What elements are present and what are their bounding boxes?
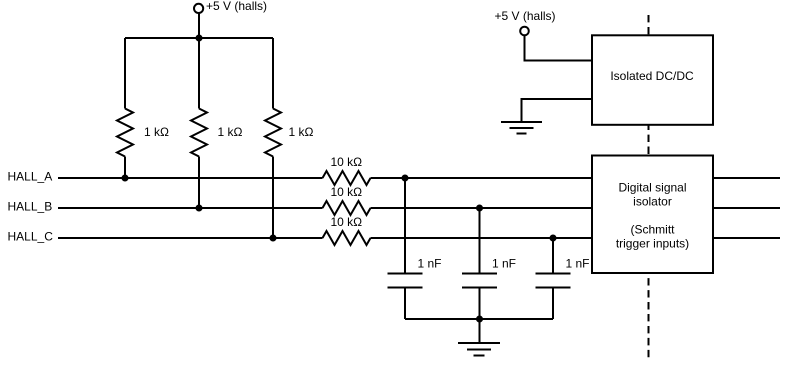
svg-text:+5 V (halls): +5 V (halls) bbox=[206, 0, 267, 13]
wire C3 to ground bus bbox=[552, 289, 554, 320]
wire output C bbox=[713, 237, 780, 239]
wire top bus bbox=[125, 37, 273, 39]
label +5 V (halls) right bbox=[495, 9, 556, 23]
capacitor C1 1nF bbox=[388, 274, 423, 288]
wire capacitor ground bus bbox=[405, 318, 553, 320]
svg-text:10 kΩ: 10 kΩ bbox=[331, 155, 363, 169]
label 1 nF C1 bbox=[418, 257, 442, 271]
junction dot R1/HALL_A bbox=[122, 175, 129, 182]
svg-text:10 kΩ: 10 kΩ bbox=[331, 215, 363, 229]
wire bus to R1 bbox=[124, 38, 126, 109]
svg-text:HALL_A: HALL_A bbox=[8, 170, 53, 184]
junction dot on bus bbox=[196, 35, 203, 42]
junction dot R2/HALL_B bbox=[196, 205, 203, 212]
svg-text:+5 V (halls): +5 V (halls) bbox=[495, 9, 556, 23]
svg-text:1 kΩ: 1 kΩ bbox=[144, 125, 169, 139]
svg-text:Digital signal: Digital signal bbox=[618, 181, 686, 195]
label HALL_A bbox=[8, 170, 53, 184]
wire output B bbox=[713, 207, 780, 209]
label 10 kOhm A bbox=[331, 155, 363, 169]
svg-text:1 nF: 1 nF bbox=[566, 257, 590, 271]
terminal +5V (halls) right bbox=[520, 27, 529, 36]
wire HALL_A right segment bbox=[371, 177, 593, 179]
wire to ground symbol bbox=[479, 319, 481, 343]
block Digital signal isolator bbox=[592, 156, 713, 274]
isolation barrier dashed line bbox=[648, 15, 650, 359]
svg-text:1 kΩ: 1 kΩ bbox=[289, 125, 314, 139]
svg-text:HALL_C: HALL_C bbox=[8, 230, 54, 244]
resistor 1k pullup A bbox=[117, 109, 133, 157]
wire HALL_A left segment bbox=[58, 177, 323, 179]
wire terminal to bus bbox=[198, 13, 200, 38]
wire bus to R2 bbox=[198, 38, 200, 109]
junction dot C2/HALL_B bbox=[476, 205, 483, 212]
wire HALL_C right segment bbox=[371, 237, 593, 239]
ground symbol bottom bbox=[458, 343, 500, 356]
resistor 1k pullup C bbox=[265, 109, 281, 157]
svg-text:trigger inputs): trigger inputs) bbox=[616, 237, 689, 251]
label +5 V (halls) left bbox=[206, 0, 267, 13]
label HALL_C bbox=[8, 230, 54, 244]
terminal +5V (halls) left bbox=[194, 4, 203, 13]
wire R3 to HALL_C bbox=[272, 157, 274, 239]
block Isolated DC/DC bbox=[592, 35, 713, 125]
wire R1 to HALL_A bbox=[124, 157, 126, 179]
resistor 10k series B bbox=[323, 201, 371, 215]
wire output A bbox=[713, 177, 780, 179]
svg-text:isolator: isolator bbox=[633, 195, 672, 209]
wire HALL_B to C2 bbox=[479, 208, 481, 273]
wire C2 to ground bus bbox=[479, 289, 481, 320]
svg-text:Isolated DC/DC: Isolated DC/DC bbox=[610, 69, 694, 83]
resistor 10k series C bbox=[323, 231, 371, 245]
junction dot C1/HALL_A bbox=[402, 175, 409, 182]
label 1 nF C2 bbox=[492, 257, 516, 271]
wire HALL_B left segment bbox=[58, 207, 323, 209]
svg-text:1 nF: 1 nF bbox=[418, 257, 442, 271]
svg-text:10 kΩ: 10 kΩ bbox=[331, 185, 363, 199]
capacitor C2 1nF bbox=[462, 274, 497, 288]
wire bus to R3 bbox=[272, 38, 274, 109]
label 1 kOhm A bbox=[144, 125, 169, 139]
wire terminal to DC/DC bbox=[525, 35, 593, 60]
label HALL_B bbox=[8, 200, 53, 214]
svg-text:HALL_B: HALL_B bbox=[8, 200, 53, 214]
wire HALL_C to C3 bbox=[552, 238, 554, 273]
wire C1 to ground bus bbox=[404, 289, 406, 320]
label 1 kOhm B bbox=[218, 125, 243, 139]
wire DC/DC to ground bbox=[522, 99, 593, 122]
wire HALL_B right segment bbox=[371, 207, 593, 209]
junction dot R3/HALL_C bbox=[270, 235, 277, 242]
svg-text:1 nF: 1 nF bbox=[492, 257, 516, 271]
capacitor C3 1nF bbox=[536, 274, 571, 288]
label 1 kOhm C bbox=[289, 125, 314, 139]
junction dot C3/HALL_C bbox=[550, 235, 557, 242]
label 10 kOhm C bbox=[331, 215, 363, 229]
wire HALL_A to C1 bbox=[404, 178, 406, 273]
label 1 nF C3 bbox=[566, 257, 590, 271]
svg-text:(Schmitt: (Schmitt bbox=[630, 223, 675, 237]
wire HALL_C left segment bbox=[58, 237, 323, 239]
resistor 10k series A bbox=[323, 171, 371, 185]
label 10 kOhm B bbox=[331, 185, 363, 199]
svg-text:1 kΩ: 1 kΩ bbox=[218, 125, 243, 139]
ground symbol DC/DC bbox=[501, 122, 542, 134]
junction dot ground bus bbox=[476, 316, 483, 323]
wire R2 to HALL_B bbox=[198, 157, 200, 209]
resistor 1k pullup B bbox=[191, 109, 207, 157]
